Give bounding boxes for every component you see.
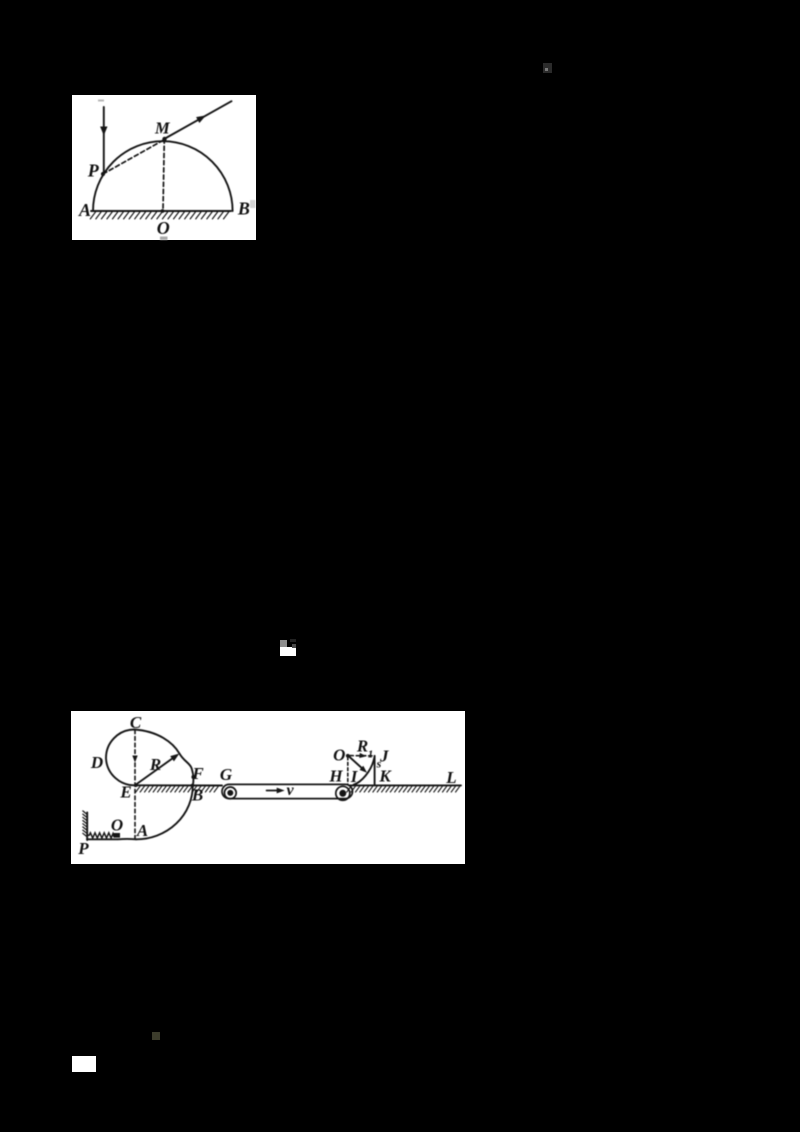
left roller hub [227,790,233,796]
svg-text:v: v [286,782,294,799]
svg-text:F: F [191,764,204,783]
wall line [86,813,88,841]
node F [191,775,195,779]
gray speck right edge [250,200,256,208]
node O1 [346,754,350,758]
svg-text:P: P [87,161,100,181]
lower ground line [87,838,136,840]
svg-text:R: R [149,755,161,774]
ground hatching left segment [136,786,219,792]
radius arrow R [136,756,177,785]
svg-text:G: G [220,765,233,784]
upper ground segment E to G [136,784,222,786]
dashed vertical O to I [347,757,349,785]
dashed horizontal O to J [350,755,374,757]
dashed radius M to O [163,139,164,210]
arrowhead on dashed CEA line [132,756,137,763]
svg-text:P: P [77,839,89,858]
right roller ring [336,786,350,800]
svg-text:E: E [119,783,131,802]
node B [191,784,195,788]
artifact: compound mark white part [280,647,296,656]
spring coil [87,833,114,838]
ramp quarter circle A to B [136,785,193,839]
arrowhead outgoing ray [196,112,208,123]
svg-text:1: 1 [368,749,374,761]
left roller ring [224,787,236,799]
svg-text:O: O [157,218,170,238]
svg-text:H: H [328,767,343,786]
node M [162,137,166,141]
upper ground segment I to L [349,784,461,786]
svg-text:O: O [111,816,123,835]
outgoing ray M upward-right [165,101,232,138]
artifact: light speck inside dark square [545,68,548,71]
ground hatching [90,212,228,219]
semicircle dome [93,141,233,211]
spring block [114,833,121,838]
node E [134,784,137,787]
ground hatching right segment [347,786,460,792]
svg-text:s: s [376,757,382,771]
arrowhead belt v [277,788,285,794]
incident ray arrow (vertical) [103,107,105,173]
artifact: compound mark dark part [292,644,297,648]
belt arrow shaft [267,790,281,792]
svg-text:M: M [154,119,171,138]
svg-text:A: A [78,200,91,220]
node O [161,209,165,213]
artifact: compound mark mid page gray part [280,640,287,648]
artifact: dark gray square top right [543,63,552,73]
arrowhead incident ray [100,127,107,136]
dashed chord P to M [103,140,165,175]
svg-text:L: L [445,768,456,787]
artifact: white rectangle bottom left [72,1056,96,1072]
arrowhead on O J dashed line [359,753,367,759]
svg-text:A: A [136,821,148,840]
radius line O1 to arc [349,756,365,771]
svg-text:O: O [333,746,345,765]
arrowhead radius O1 end [360,766,369,775]
artifact: compound mark faint top part [290,639,296,642]
gray tab bottom edge [160,237,168,241]
conveyor belt body [222,784,353,798]
tiny gray tick above incident ray [98,100,104,102]
svg-text:B: B [191,786,203,805]
arrowhead R [170,751,181,761]
dashed vertical C E A [134,730,136,839]
panel 2 : loop + conveyor diagram [71,711,465,864]
svg-text:B: B [237,199,250,219]
vertical line J to K [374,756,376,785]
svg-text:D: D [90,753,103,772]
node P [101,172,105,176]
svg-text:C: C [130,713,142,732]
right roller hub [339,790,346,797]
quarter arc I to J [354,758,375,785]
wall hatching [83,811,87,837]
artifact: olive square bottom left [152,1032,160,1040]
ground line AB [91,210,231,212]
svg-text:R: R [356,737,368,756]
panel 1 : semicircle dome diagram [72,95,256,240]
loop teardrop track [106,730,193,786]
